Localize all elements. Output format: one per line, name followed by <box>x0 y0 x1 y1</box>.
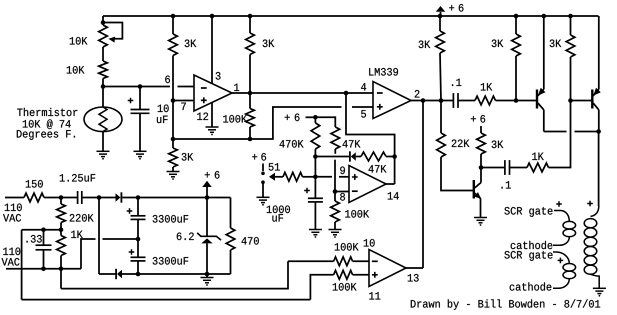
node rail/pin3 <box>210 14 215 19</box>
plus sign U1a <box>201 97 207 103</box>
node out2/out13 <box>421 98 426 103</box>
capacitor .33 <box>36 245 52 250</box>
wire <box>480 154 482 168</box>
label "13" <box>408 274 419 282</box>
node Q1 collector <box>479 165 484 170</box>
wire Q3 emitter to +6 rail <box>598 16 600 89</box>
secondary 2 bottom lead <box>553 279 569 289</box>
resistor 3K (to ground) <box>169 148 178 167</box>
resistor 10K (lower) <box>99 61 108 79</box>
label ".1" <box>501 181 510 188</box>
ground (zener) <box>201 278 214 286</box>
wire pin 9 <box>315 176 332 178</box>
wire ref to pin 5 <box>250 107 342 139</box>
label "10K @ 74" <box>23 119 71 129</box>
wire Q3 base <box>571 100 592 102</box>
node 220K top <box>59 195 64 200</box>
wire pot top <box>102 16 104 25</box>
wire <box>139 113 141 151</box>
wire <box>102 47 104 61</box>
node caps midpoint <box>136 237 141 242</box>
wire <box>60 198 62 205</box>
ground (jumper) <box>257 197 270 205</box>
wire <box>310 275 333 300</box>
wire <box>249 93 251 109</box>
node rail/3K2 <box>248 14 253 19</box>
wire <box>99 273 116 275</box>
minus sign U1c <box>352 190 358 192</box>
capacitor 3300uF (upper) <box>131 216 146 220</box>
label "22K" <box>452 140 470 147</box>
wire <box>440 53 441 101</box>
node collectors/primary <box>596 129 601 134</box>
wire +V to regulator <box>138 197 231 199</box>
label "LM339" <box>369 68 398 76</box>
node pin 8 <box>333 189 338 194</box>
node pin7 <box>171 98 176 103</box>
node AC <box>97 195 102 200</box>
wire <box>440 101 442 134</box>
wire <box>481 167 504 169</box>
label "5" <box>361 110 366 117</box>
wire +6 stub to 470K <box>306 116 316 118</box>
110VAC top input wire <box>5 197 24 199</box>
wire output 14 <box>386 183 395 185</box>
label "6" <box>480 115 485 123</box>
label "cathode" <box>511 241 553 249</box>
wire <box>334 192 336 202</box>
capacitor 1.25uF <box>78 191 82 204</box>
secondary 2 top lead <box>553 252 569 264</box>
label "SCR gate" <box>504 251 552 261</box>
wire <box>122 197 138 199</box>
label "100K" <box>335 243 359 251</box>
label "uF" <box>272 214 283 221</box>
label "10K" <box>67 66 85 74</box>
node zener bottom <box>205 272 210 277</box>
op-amp U1d (pins 10,11, out 13) <box>369 250 406 287</box>
label "12" <box>197 113 208 120</box>
node pot-top/wiper junction <box>101 20 106 25</box>
transformer secondary 1 winding <box>563 221 576 229</box>
polarity + (secondary 1) <box>556 201 562 207</box>
label "6" <box>215 171 220 179</box>
ground (10uF) <box>134 151 147 159</box>
label "3K" <box>492 141 504 149</box>
wire <box>22 229 61 231</box>
polarity + (3300uF upper) <box>127 208 133 214</box>
jumper pin top <box>261 172 265 176</box>
wire <box>440 12 442 16</box>
label "uF" <box>157 116 168 123</box>
resistor 1K (AC return) <box>57 236 66 256</box>
node 100K bottom <box>248 137 253 142</box>
label "10" <box>158 105 169 113</box>
wire common rail (after hop) <box>103 238 139 240</box>
wire to transformer <box>598 132 600 207</box>
node .33 top <box>41 228 46 233</box>
label "3K" <box>419 41 431 49</box>
label "10" <box>364 239 375 247</box>
resistor 470 <box>226 228 235 250</box>
capacitor 3300uF (lower) <box>131 257 146 261</box>
label "3K" <box>550 40 562 48</box>
wire output 13 <box>406 267 423 269</box>
wire Q2 emitter to +6 <box>543 16 545 89</box>
wire out13 to out2 <box>422 101 424 269</box>
polarity + (10uF) <box>128 98 134 104</box>
wire <box>543 110 545 132</box>
wire collector bus (after hop) <box>575 131 599 133</box>
label "470" <box>242 237 259 245</box>
ground (100K) <box>329 230 342 238</box>
wire <box>172 167 174 172</box>
label "cathode" <box>510 282 552 290</box>
label "10K" <box>70 37 88 45</box>
node 470K top <box>313 115 318 120</box>
label "4" <box>361 83 366 90</box>
wire <box>172 139 174 148</box>
wire <box>60 230 62 236</box>
label "+" <box>252 154 257 159</box>
resistor 3K (second) <box>246 33 255 55</box>
label "1.25uF" <box>60 174 95 182</box>
minus sign U1d <box>372 260 378 262</box>
polarity + (primary) <box>587 201 593 207</box>
label "47K" <box>343 140 361 147</box>
wire -V rail <box>122 273 231 275</box>
wire <box>172 16 174 34</box>
wire <box>570 57 572 101</box>
wire to pin 6 (after hop) <box>178 86 195 88</box>
resistor 100K (pin 10) <box>334 257 353 266</box>
wire to Q2 base <box>496 100 537 102</box>
label "14" <box>388 192 399 199</box>
ground (thermistor) <box>97 151 110 159</box>
label "1K" <box>532 153 544 160</box>
resistor 220K <box>57 204 66 223</box>
transistor Q3 (PNP) <box>591 90 593 109</box>
label "SCR gate" <box>504 207 552 217</box>
wire <box>515 56 517 101</box>
wire to pin 6 <box>103 86 170 88</box>
wire sense down <box>60 269 62 289</box>
minus sign U1a <box>201 87 207 89</box>
wire 1K to Q3 base <box>549 101 571 168</box>
label "8" <box>340 193 345 201</box>
Q2 collector lead <box>538 103 544 110</box>
diode D2 (bottom) <box>117 270 122 279</box>
wire <box>334 222 336 230</box>
node +6 regulated <box>205 195 210 200</box>
label "110" <box>5 204 22 212</box>
wire <box>137 198 139 216</box>
wire <box>230 250 232 274</box>
resistor 3K (Q3 base pullup) <box>566 35 575 57</box>
diode D1 (top) <box>116 193 121 202</box>
wire <box>99 197 116 199</box>
label "+" <box>471 116 476 121</box>
plus sign U1d <box>372 272 378 278</box>
plus sign U1c <box>352 174 358 180</box>
wire <box>206 274 208 278</box>
resistor 1K (second) <box>527 163 549 172</box>
capacitor .1 (second) <box>505 160 510 175</box>
node 3K/Q2 base <box>514 98 519 103</box>
node out2/3K pullup <box>439 98 444 103</box>
wire <box>43 250 45 269</box>
wire 47K top to +6 stub <box>315 117 335 127</box>
polarity + (3300uF lower) <box>129 249 135 255</box>
label "Thermistor" <box>17 108 77 116</box>
label "470K" <box>280 140 304 148</box>
node divider/thermistor junction <box>101 84 106 89</box>
node rail/+6 arrow <box>438 14 443 19</box>
label "3" <box>216 72 221 80</box>
wire <box>230 198 232 229</box>
node rail/3K Q2 <box>514 14 519 19</box>
wire <box>262 184 264 197</box>
wire <box>315 156 349 158</box>
node out1/100K <box>248 91 253 96</box>
wire to pin 7 <box>173 100 194 102</box>
ground (pin 12) <box>206 127 219 135</box>
Q2 emitter arrow <box>538 88 546 96</box>
ground (primary) <box>593 288 606 296</box>
wire AC neutral down <box>21 230 23 300</box>
ground (Q1 emitter) <box>474 218 487 226</box>
+6 jumper pin <box>262 164 264 172</box>
label "3K" <box>182 153 194 161</box>
label "3K" <box>492 40 504 48</box>
label "VAC" <box>2 258 20 266</box>
node rail/3K Q3 <box>568 14 573 19</box>
secondary 1 bottom lead <box>553 237 569 246</box>
minus sign U1b <box>377 92 383 94</box>
label "+" <box>449 5 454 10</box>
wire <box>459 100 475 102</box>
label "100K" <box>223 115 247 123</box>
wire <box>249 55 251 94</box>
resistor 3K (first) <box>169 34 178 56</box>
wire <box>598 110 600 132</box>
jumper pin bottom <box>261 180 265 184</box>
Q1 collector lead <box>475 183 481 188</box>
wire <box>137 219 139 239</box>
node 3K/3K midpoint <box>171 137 176 142</box>
label ".1" <box>452 79 461 86</box>
secondary 1 top lead <box>554 211 569 222</box>
capacitor 1000uF <box>308 198 323 202</box>
wire <box>353 274 369 276</box>
wire <box>206 198 208 237</box>
wire pin 5 (after hop) <box>352 106 373 108</box>
capacitor 10uF <box>131 110 150 114</box>
node rail/Q2 <box>542 14 547 19</box>
wire sense line A <box>61 261 288 288</box>
node osc RC <box>313 154 318 159</box>
wire <box>206 243 208 274</box>
wire <box>206 187 208 198</box>
wire pin 9 (after hop) <box>339 176 349 178</box>
wire V+ pin 3 <box>211 16 213 84</box>
node +V <box>136 195 141 200</box>
transformer secondary 2 winding <box>563 264 576 272</box>
resistor 100K (hysteresis) <box>246 109 255 128</box>
wire return to common <box>81 239 96 269</box>
wire <box>249 16 251 33</box>
resistor 150 <box>24 193 44 202</box>
wire output 2 <box>411 100 453 102</box>
arrow 51 ohm jumper <box>269 173 275 181</box>
wire <box>515 16 517 34</box>
label "2" <box>415 90 420 97</box>
wire sense line B <box>22 299 311 301</box>
label "100K" <box>345 210 369 218</box>
wire <box>353 260 369 262</box>
label "220K" <box>70 214 94 222</box>
Q3 collector lead <box>593 103 599 110</box>
wire <box>288 260 334 262</box>
wire +6 stub <box>480 126 482 133</box>
ground (1000uF) <box>309 230 322 238</box>
wire <box>83 197 99 199</box>
label "Degrees F." <box>17 130 75 140</box>
label "110" <box>3 248 20 256</box>
wire <box>137 239 139 257</box>
label "3K" <box>185 40 197 48</box>
label "+" <box>205 172 210 177</box>
wire <box>480 199 482 218</box>
transformer primary top lead <box>591 206 599 217</box>
node 10uF top <box>138 84 143 89</box>
wire <box>386 156 395 158</box>
wire ref node <box>173 138 250 140</box>
label "51" <box>269 163 280 170</box>
label "+" <box>285 115 290 120</box>
wire pot wiper <box>103 23 122 39</box>
label "6" <box>261 153 266 161</box>
label "100K" <box>333 283 357 291</box>
label "Drawn by - Bill Bowden - 8/7/01" <box>411 299 600 309</box>
node .33 bottom <box>41 267 46 272</box>
Q1 emitter lead <box>475 193 481 199</box>
resistor 100K (pin 11) <box>334 270 353 279</box>
polarity + (secondary 2) <box>558 258 564 264</box>
wire collector bus <box>544 131 567 133</box>
label "1K" <box>71 231 83 238</box>
transformer primary winding <box>584 219 597 228</box>
wire <box>303 176 316 178</box>
label "7" <box>181 103 186 110</box>
label "1K" <box>481 83 493 90</box>
potentiometer 10K (upper) <box>99 25 108 47</box>
label "1" <box>234 84 239 91</box>
transistor Q1 (NPN) <box>473 180 475 199</box>
wire <box>60 256 62 269</box>
wire <box>314 117 316 123</box>
wire <box>172 56 174 140</box>
ground (3K divider) <box>167 172 180 180</box>
label "3300uF" <box>153 257 189 265</box>
wire thermistor to ground <box>102 132 104 152</box>
pot wiper arrow <box>108 37 115 43</box>
Q3 emitter lead <box>593 89 599 96</box>
wire <box>275 176 283 178</box>
wire <box>60 223 62 230</box>
label "6" <box>165 76 170 84</box>
resistor 47K (feedback) <box>361 152 386 161</box>
wire <box>137 261 139 274</box>
node feedback/out14 <box>392 154 397 159</box>
transformer primary bottom lead <box>591 274 600 288</box>
wire <box>570 16 572 35</box>
wire <box>439 16 441 31</box>
resistor 3K (Q1 load) <box>477 133 486 154</box>
wire <box>43 230 45 245</box>
wire output 1 to pin 4 <box>232 92 373 94</box>
polarity + (1000uF) <box>304 188 310 194</box>
label "47K" <box>369 165 387 172</box>
resistor 47K (divider) <box>331 127 340 149</box>
wire <box>249 127 251 139</box>
wire 22K to Q1 base <box>441 157 474 191</box>
op-amp U1c (pins 8,9, out 14) <box>349 166 386 203</box>
wire Q1 collector <box>480 168 482 183</box>
label ".33" <box>26 235 41 243</box>
node 1K bottom <box>59 267 64 272</box>
transistor Q2 (PNP) <box>536 90 538 109</box>
wire out1 to out14 tie <box>346 93 395 184</box>
label "11" <box>369 292 380 299</box>
wire <box>314 202 316 230</box>
+6V top rail <box>103 15 599 17</box>
Q1 emitter arrow <box>474 192 481 199</box>
op-amp U1a (pins 6,7, out 1) <box>194 75 232 111</box>
thermistor (10K @ 74 deg F) <box>84 107 122 132</box>
node rail/3K <box>171 14 176 19</box>
resistor 100K (divider) <box>331 201 340 222</box>
110VAC bottom input wire <box>6 268 81 270</box>
label "6.2" <box>177 233 194 241</box>
wire <box>334 149 336 154</box>
label "3300uF" <box>153 215 189 223</box>
wire <box>314 149 316 198</box>
label "3K" <box>263 40 275 48</box>
wire <box>139 87 141 110</box>
node -V/3300uF <box>136 272 141 277</box>
label "150" <box>26 180 43 188</box>
label "1000" <box>267 206 290 214</box>
wire to thermistor <box>102 87 104 108</box>
wire pin 8 <box>335 191 349 193</box>
node 1K top <box>59 228 64 233</box>
diode (feedback) <box>351 152 356 161</box>
wire AC node column <box>98 198 100 275</box>
label "6" <box>295 114 300 122</box>
Q3 emitter arrow <box>593 88 601 96</box>
Q2 emitter lead <box>538 89 544 96</box>
capacitor .1 (first) <box>453 93 458 108</box>
op-amp U1b LM339 (pins 4,5, out 2) <box>373 82 411 119</box>
resistor 470K <box>311 123 320 149</box>
node Q3 base <box>568 98 573 103</box>
label "9" <box>340 167 345 175</box>
label "VAC" <box>3 214 21 222</box>
wire pin 12 to ground <box>211 103 213 127</box>
label "6" <box>459 4 464 12</box>
node out1 branch <box>344 91 349 96</box>
